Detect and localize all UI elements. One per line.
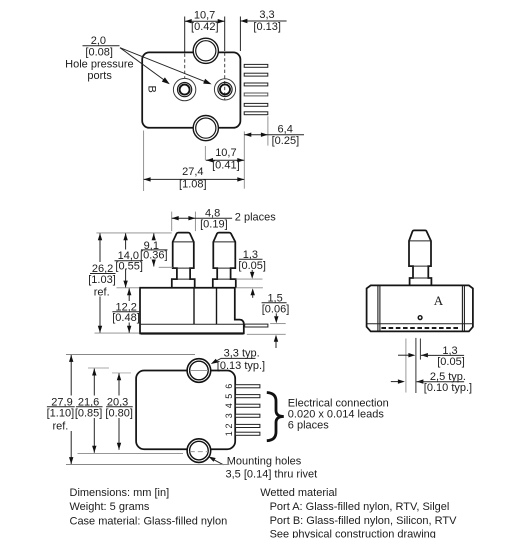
svg-text:[0.80]: [0.80] [105,407,133,419]
svg-text:[0.13]: [0.13] [253,21,281,33]
top port boss circle [193,38,218,63]
left port tube [172,233,195,289]
svg-text:[0.42]: [0.42] [191,21,219,33]
pressure port hole A (right) [214,79,235,100]
extension line bottom (27,9) [66,464,229,466]
dimension 10,7 [0.41] bottom [206,147,244,172]
dimension 9,1 [0.36] [140,233,173,267]
svg-text:[0.48]: [0.48] [112,312,140,324]
lead pitch reference lines [405,339,407,393]
dimension 1,5 [0.06] lead [247,292,289,348]
bottom port boss circle [193,116,218,141]
lead 4 (top view) [244,93,268,96]
centerline left port [184,17,186,79]
mounting hole bottom [187,439,211,463]
bottom-left extension line [95,332,140,334]
svg-text:[1.03]: [1.03] [88,274,116,286]
svg-text:Weight: 5 grams: Weight: 5 grams [70,501,150,513]
svg-text:27,4: 27,4 [182,166,203,178]
svg-text:3: 3 [224,413,234,418]
brace for leads [267,393,284,441]
svg-text:[0.25]: [0.25] [272,135,300,147]
centerline below bottom boss [204,146,206,161]
dimension 20,3 [0.80] [105,373,133,450]
case body (front view) [140,288,244,334]
svg-text:A: A [434,293,444,308]
lead 6 (bottom view) [235,385,260,388]
extension line top (20,3) [112,372,131,374]
dimension 26,2 [1.03] ref. [88,233,116,332]
svg-text:See physical construction draw: See physical construction drawing [270,528,436,538]
svg-text:Wetted material: Wetted material [260,487,337,499]
electrical connection note [288,398,389,432]
hidden lead row (dashed) [381,327,458,329]
svg-text:4,8: 4,8 [205,207,220,219]
svg-text:2,0: 2,0 [91,35,106,47]
svg-text:6 places: 6 places [288,419,329,431]
lead 3 (top view) [244,83,268,86]
svg-text:10,7: 10,7 [194,9,215,21]
dimension 10,7 [0.42] top [185,9,225,33]
extension line bottom (21,6) [78,452,184,454]
svg-text:10,7: 10,7 [215,147,236,159]
svg-text:Hole pressure: Hole pressure [65,58,133,70]
lead 1 (top view) [244,64,268,67]
svg-text:[0.13 typ.]: [0.13 typ.] [217,360,265,372]
svg-text:Port B: Glass-filled nylon, Si: Port B: Glass-filled nylon, Silicon, RTV [270,515,458,527]
svg-text:[0.05]: [0.05] [437,356,465,368]
vent hole [418,316,422,320]
svg-text:[0.55]: [0.55] [115,261,143,273]
lead 5 (bottom view) [235,395,260,398]
lead 1 (bottom view) [235,432,260,435]
svg-text:Mounting holes: Mounting holes [227,456,302,468]
svg-text:[0.41]: [0.41] [212,160,240,172]
svg-text:[0.85]: [0.85] [75,407,103,419]
svg-text:[0.19]: [0.19] [200,219,228,231]
svg-text:Dimensions: mm [in]: Dimensions: mm [in] [70,487,170,499]
case body (bottom view) [136,371,235,450]
svg-text:3,3: 3,3 [259,9,274,21]
svg-text:ports: ports [87,70,112,82]
svg-text:[1.08]: [1.08] [179,179,207,191]
leader to right hole [120,48,212,84]
lead 2 (top view) [244,73,268,76]
svg-text:3,3 typ.: 3,3 typ. [224,348,260,360]
dimension 27,9 [1.10] ref. [47,355,75,464]
label 2,0 [0.08] hole pressure ports [65,35,133,82]
svg-text:[0.06]: [0.06] [262,303,290,315]
tube-top extension line [96,232,171,234]
svg-text:B: B [145,86,157,93]
dimension 4,8 [0.19] 2 places [172,207,277,231]
pressure port hole B (left) [173,78,195,100]
dimension 27,4 [1.08] body width [144,131,245,192]
svg-text:6: 6 [224,384,234,389]
svg-text:6,4: 6,4 [278,123,293,135]
svg-text:[0.10 typ.]: [0.10 typ.] [424,382,472,394]
svg-text:[1.10]: [1.10] [47,407,75,419]
svg-text:1: 1 [224,431,234,436]
svg-text:5: 5 [224,394,234,399]
svg-text:3,5 [0.14] thru rivet: 3,5 [0.14] thru rivet [226,469,318,481]
bent lead (front view) [245,324,268,327]
svg-text:ref.: ref. [94,286,110,298]
lead 6 (top view) [244,112,268,115]
svg-text:2 places: 2 places [235,211,276,223]
lead 4 (bottom view) [235,404,260,407]
svg-text:2: 2 [224,423,234,428]
extension line top (21,6) [88,367,109,369]
case body (top view) [142,52,240,127]
leader to left hole [120,48,170,84]
dimension 21,6 [0.85] [75,369,103,453]
leader mounting holes [209,456,318,481]
lead 3 (bottom view) [235,414,260,417]
svg-text:ref.: ref. [52,421,68,433]
svg-text:[0.36]: [0.36] [140,249,168,261]
extension line top (27,9) [66,354,195,356]
lead 2 (bottom view) [235,424,260,427]
centerline right port [224,17,226,100]
right port tube [213,233,236,289]
mounting hole top [187,359,211,383]
port tube (side view) [409,230,431,285]
dimension 1,3 [0.05] lead width [398,345,465,368]
dimension 2,5 typ. [0.10 typ.] lead pitch [391,371,472,394]
svg-text:Port A: Glass-filled nylon, RT: Port A: Glass-filled nylon, RTV, Silgel [270,501,450,513]
svg-text:4: 4 [224,403,234,408]
body-top extension line (left) [117,287,140,289]
case body (side view) [367,285,473,331]
dimension 6,4 [0.25] lead length [244,116,304,188]
dimension 14,0 [0.55] [115,233,143,287]
dimension 1,3 [0.05] neck [236,249,266,298]
dimension 3,3 [0.13] top right [240,9,286,51]
dimension 12,2 [0.48] [112,288,140,333]
label 3,3 typ. [0.13 typ.] [211,348,265,373]
lead 5 (top view) [244,103,268,106]
svg-text:[0.08]: [0.08] [85,47,113,59]
svg-text:Case material: Glass-filled ny: Case material: Glass-filled nylon [70,516,228,528]
